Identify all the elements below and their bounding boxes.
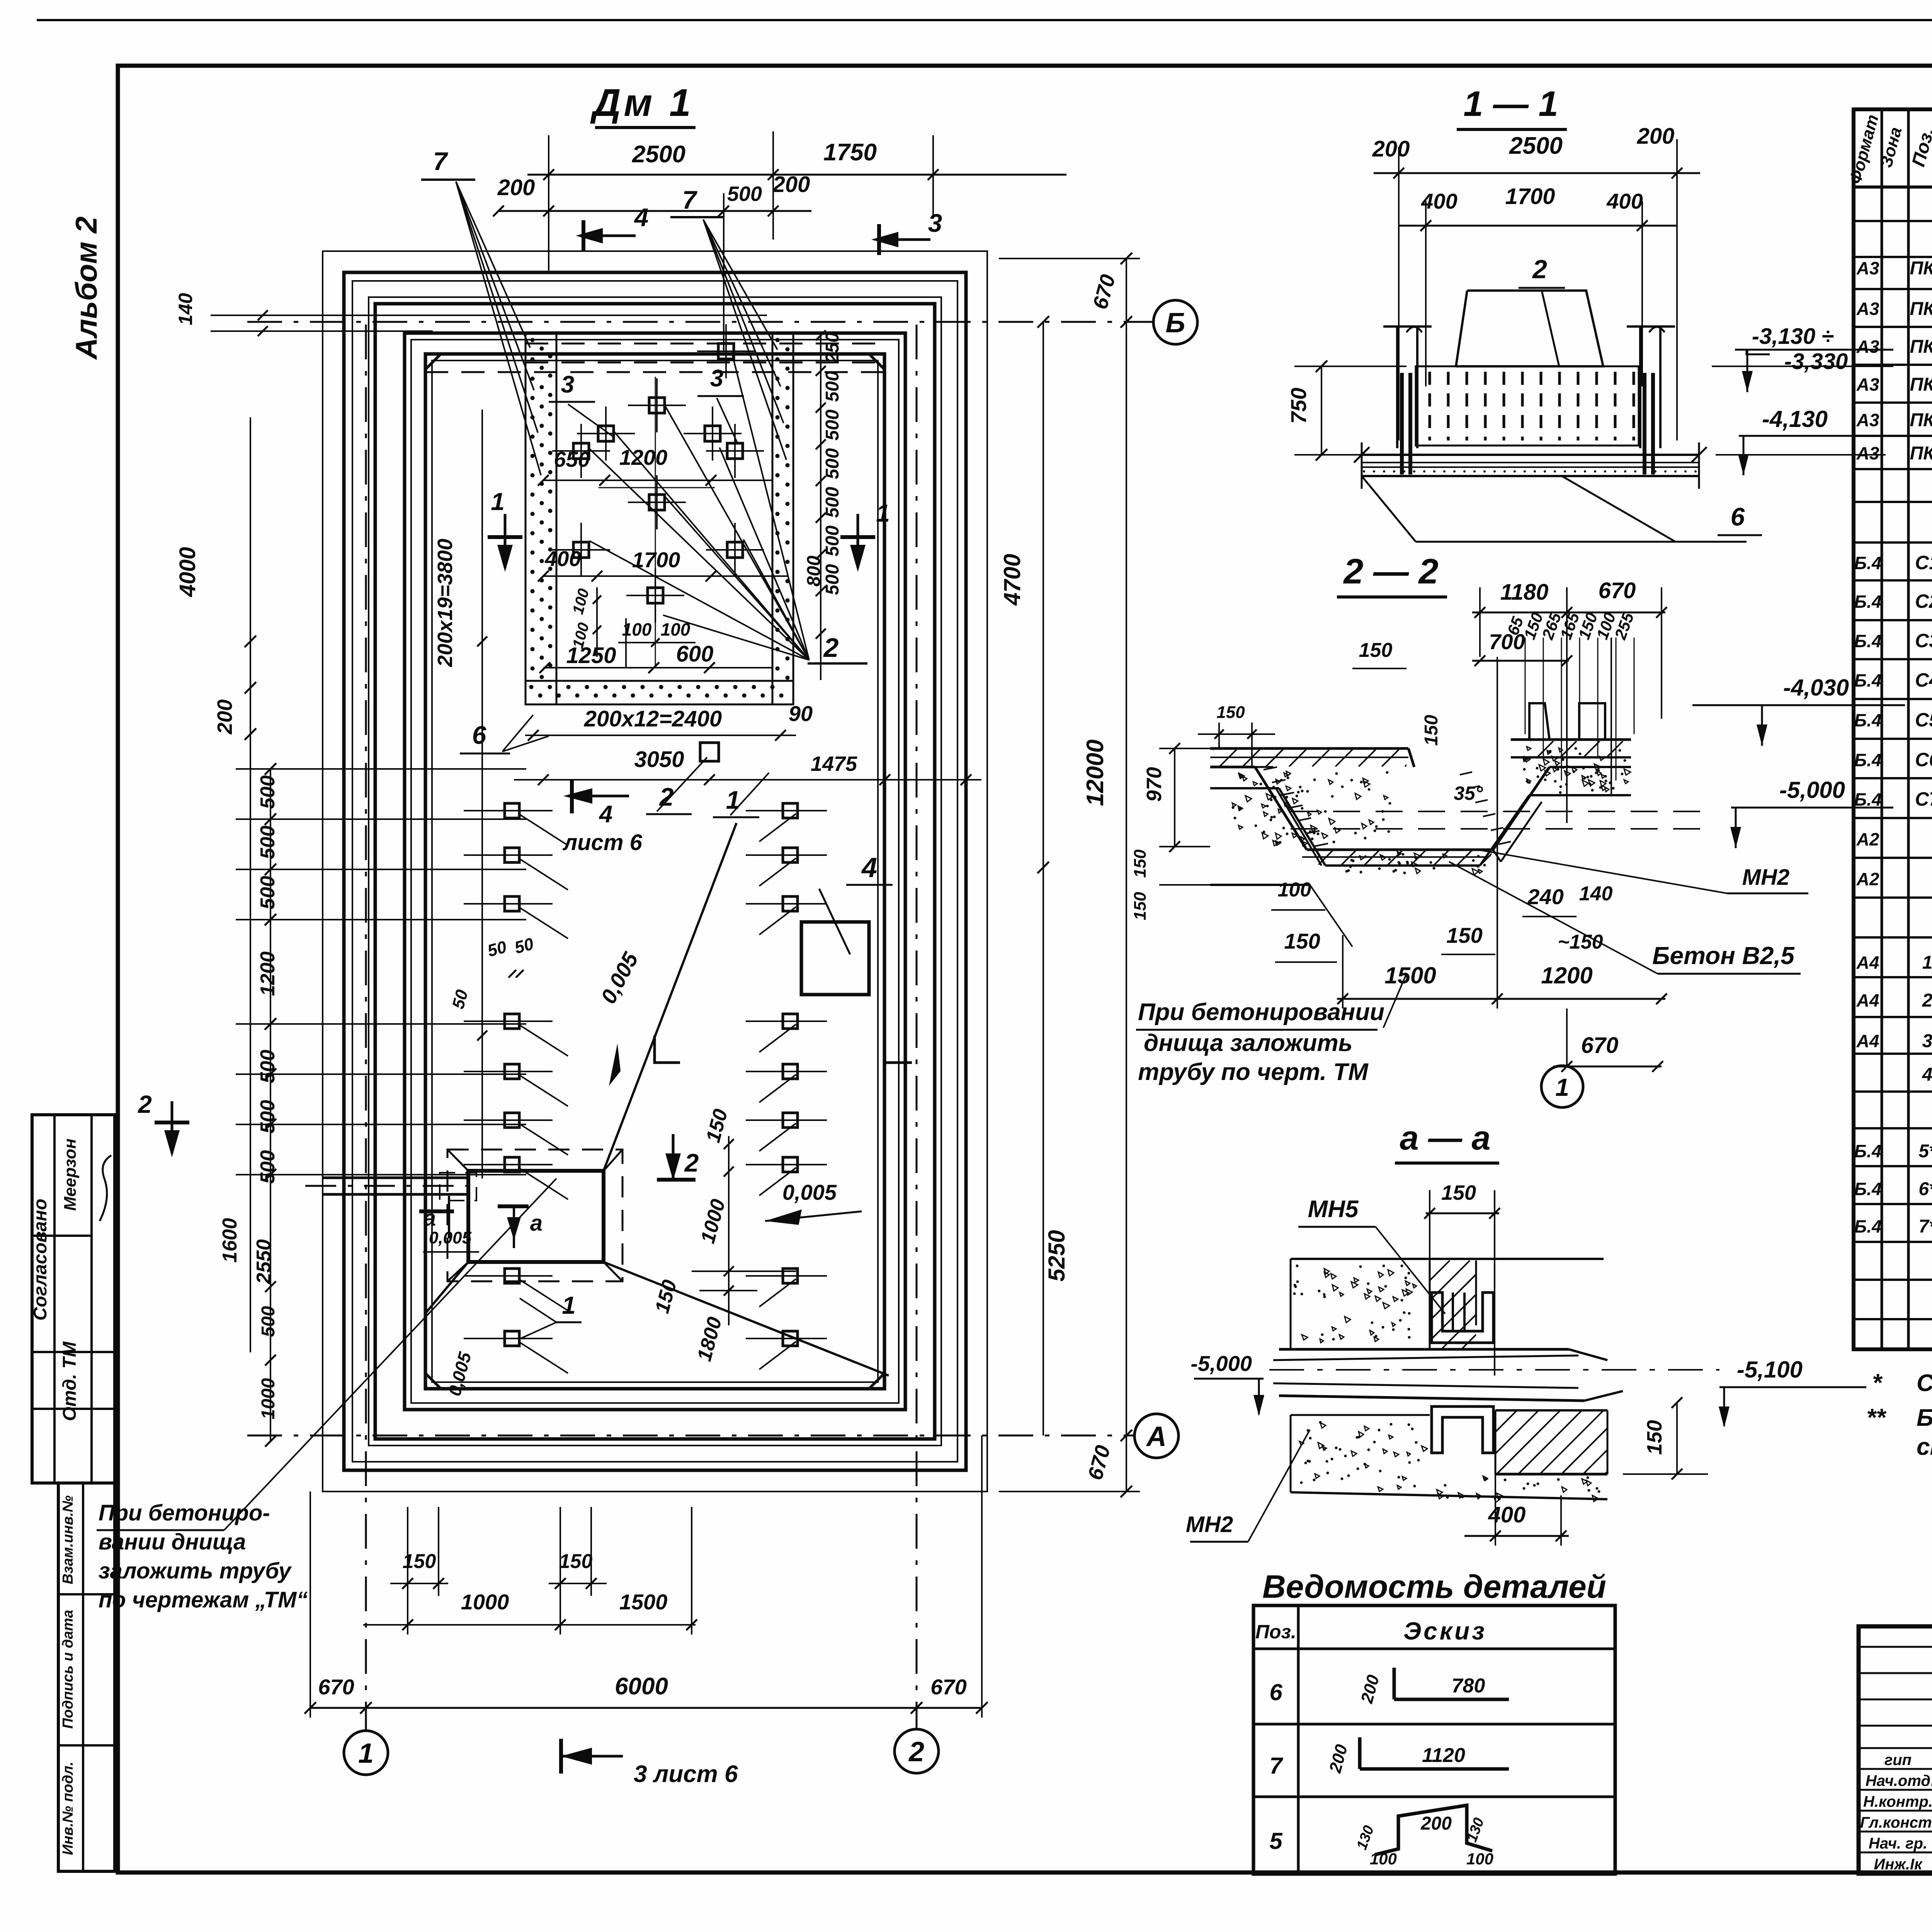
svg-text:С5: С5 [1915,709,1932,731]
chamfer corners inner formwork rect [425,354,441,369]
paper top edge line [37,19,1932,21]
svg-text:670: 670 [930,1675,966,1699]
section mark 3 лист 6 bottom [559,1739,563,1774]
svg-text:С4: С4 [1915,669,1932,691]
axis 1 vertical line [365,325,367,1731]
svg-text:6: 6 [1269,1679,1282,1705]
svg-text:200: 200 [1372,136,1410,162]
section 2-2 dashed level line [1291,811,1700,812]
svg-text:2: 2 [1922,990,1932,1011]
svg-text:2: 2 [138,1090,152,1118]
svg-text:400: 400 [1606,189,1643,213]
section 1-1 dashed mesh band [1416,366,1639,446]
section mark 3 top right [877,224,881,255]
axis А circle [1134,1414,1179,1458]
svg-text:Б.4: Б.4 [1854,631,1882,651]
svg-text:ПК3: ПК3 [1910,337,1932,357]
svg-text:200х19=3800: 200х19=3800 [434,539,457,667]
svg-text:1: 1 [876,499,890,527]
svg-text:400: 400 [1488,1502,1526,1527]
svg-text:3: 3 [710,365,723,392]
svg-text:ПК4: ПК4 [1910,374,1932,395]
svg-text:500: 500 [257,826,279,859]
plan top dim line second row 200/500/200 [498,210,811,212]
svg-text:7*: 7* [1918,1216,1932,1237]
svg-text:-3,330: -3,330 [1784,349,1848,374]
svg-text:Б.4: Б.4 [1854,710,1882,730]
svg-text:12000: 12000 [1082,740,1109,806]
svg-text:Инж.Iк: Инж.Iк [1874,1856,1923,1873]
right column of embedded squares [783,803,798,818]
section 2-2 axis circle 1 [1541,1066,1583,1107]
svg-text:750: 750 [1286,388,1311,423]
svg-text:-5,000: -5,000 [1190,1351,1252,1376]
svg-text:Ведомость деталей: Ведомость деталей [1262,1568,1606,1605]
spec table row lines [1854,220,1932,222]
svg-text:1750: 1750 [823,139,877,166]
svg-text:гип: гип [1884,1752,1912,1769]
section mark 4 лист 6 [570,781,574,813]
svg-text:1120: 1120 [1422,1744,1465,1767]
svg-text:1475: 1475 [811,752,857,776]
svg-text:35°: 35° [1454,782,1483,804]
svg-text:При бетониро-: При бетониро- [99,1500,270,1526]
section mark 1 right side [840,535,875,539]
section 2-2 slope hatch right [1498,842,1511,844]
svg-text:1000: 1000 [258,1378,279,1419]
svg-text:500: 500 [822,564,843,595]
svg-text:вании днища: вании днища [99,1529,246,1554]
svg-text:500: 500 [822,371,843,402]
svg-text:100: 100 [661,619,690,639]
a-a lower concrete stipple [1291,1414,1430,1416]
svg-text:Б.4: Б.4 [1854,1216,1882,1236]
section mark 1 left with down arrow [488,535,522,539]
axis 2 circle [895,1729,939,1773]
svg-text:150: 150 [1216,703,1245,722]
svg-text:Альбом 2: Альбом 2 [69,216,103,360]
svg-text:Б.4: Б.4 [1854,1141,1882,1161]
svg-text:670: 670 [318,1675,354,1699]
svg-text:Гл.конст.: Гл.конст. [1860,1814,1932,1831]
svg-text:Б.4: Б.4 [1854,750,1882,770]
svg-text:Инв.№ подл.: Инв.№ подл. [60,1762,76,1855]
svg-text:Подпись и дата: Подпись и дата [60,1610,76,1729]
svg-text:Б.4: Б.4 [1854,670,1882,690]
pit inner dims column right 250 500s 800 [820,336,821,680]
corner marks in plan [655,1036,680,1063]
bottom main dim line 670 6000 670 [310,1707,982,1709]
dim chain vertical lower right [728,1136,730,1325]
svg-text:~150: ~150 [1558,931,1603,953]
svg-text:Б.4: Б.4 [1854,1179,1882,1199]
svg-text:трубу по черт. ТМ: трубу по черт. ТМ [1138,1059,1369,1085]
svg-text:См. ведомость деталей: См. ведомость деталей [1917,1370,1932,1396]
svg-text:150: 150 [1359,639,1393,662]
svg-text:400: 400 [544,546,581,571]
svg-text:500: 500 [257,876,279,910]
svg-text:Б.4: Б.4 [1854,553,1882,573]
svg-text:Бетон В2,5: Бетон В2,5 [1652,942,1795,969]
svg-text:А3: А3 [1856,299,1879,319]
svg-text:650: 650 [554,447,590,471]
svg-text:Меерзон: Меерзон [61,1138,80,1211]
svg-text:А3: А3 [1856,258,1879,278]
Ведомость деталей table [1253,1605,1615,1874]
svg-text:250: 250 [822,332,843,364]
svg-text:днища заложить: днища заложить [1144,1030,1352,1056]
svg-text:150: 150 [1441,1181,1476,1204]
section mark 2 left edge [155,1121,189,1124]
svg-text:500: 500 [822,448,843,479]
section 2-2 trough profile outer [1210,748,1408,847]
svg-text:4000: 4000 [175,547,200,597]
svg-text:970: 970 [1143,767,1166,802]
pit hidden dashed lines top [525,343,885,345]
svg-text:Нач. гр.: Нач. гр. [1869,1835,1927,1852]
svg-text:6: 6 [472,721,487,749]
svg-text:А3: А3 [1856,337,1879,357]
spec table column lines [1881,109,1883,1349]
svg-text:С3: С3 [1915,630,1932,651]
svg-text:5: 5 [1269,1828,1283,1854]
svg-text:ПК6: ПК6 [1910,443,1932,464]
svg-text:0,005: 0,005 [429,1228,472,1247]
svg-text:90: 90 [789,701,813,726]
section 1-1 lower parallelogram lines [1362,476,1416,542]
svg-text:Б.4: Б.4 [1854,592,1882,612]
section 2-2 slope hatch left [1264,767,1277,770]
section 1-1 dark rebar bundles [1400,373,1404,474]
svg-text:100: 100 [1278,879,1311,901]
svg-text:Взам.инв.№: Взам.инв.№ [60,1495,76,1584]
svg-text:3: 3 [561,371,574,398]
svg-text:А3: А3 [1856,374,1879,395]
svg-text:6000: 6000 [615,1673,668,1700]
svg-text:-5,000: -5,000 [1779,777,1845,803]
svg-text:1700: 1700 [1505,184,1555,209]
svg-text:200: 200 [772,172,810,197]
opening square pos 4 in plan [801,922,869,995]
svg-text:1200: 1200 [619,445,668,469]
svg-text:ПК5: ПК5 [1910,410,1932,430]
section mark a lower-left with arrows [498,1204,529,1208]
plan slope diagonal lines [604,823,736,1171]
svg-text:150: 150 [1446,923,1482,947]
svg-text:1700: 1700 [632,548,680,572]
svg-text:1: 1 [726,786,740,814]
bottom pit rectangle in plan [468,1171,604,1262]
svg-text:150: 150 [1131,849,1150,878]
svg-text:А4: А4 [1856,952,1879,973]
svg-text:240: 240 [1527,884,1563,909]
svg-text:200: 200 [497,175,535,200]
spec table header [1854,185,1932,189]
left dim vertical line outer [250,526,251,1352]
svg-text:1600: 1600 [219,1218,241,1263]
svg-text:4: 4 [599,801,612,828]
svg-text:-3,130 ÷: -3,130 ÷ [1752,324,1834,349]
section mark 2 lower with down arrow [657,1178,696,1182]
svg-text:1: 1 [562,1291,576,1319]
section 2-2 top dims 1180 670 [1472,612,1665,614]
plan nested formwork rectangles [323,251,987,1492]
svg-text:по чертежам „ТМ“: по чертежам „ТМ“ [99,1587,308,1612]
svg-text:А3: А3 [1856,410,1879,430]
svg-text:1 — 1: 1 — 1 [1463,84,1558,124]
a-a upper concrete stipple block [1291,1258,1604,1260]
svg-text:А: А [1146,1421,1167,1452]
svg-text:А4: А4 [1856,1031,1879,1051]
svg-text:Дм 1: Дм 1 [590,81,694,124]
section 2-2 vertical reference lines mid [1497,657,1498,850]
svg-text:Согласовано: Согласовано [30,1199,51,1321]
section mark 4 top [582,220,585,251]
svg-text:МН5: МН5 [1308,1196,1359,1223]
left column of embedded squares [505,803,519,818]
svg-text:3: 3 [1922,1031,1932,1051]
svg-text:600: 600 [676,641,714,667]
upper left stamp table [32,1115,115,1483]
svg-text:МН2: МН2 [1186,1512,1233,1537]
svg-text:1250: 1250 [566,643,616,668]
right vertical dim 5250 [1043,867,1044,1435]
embedded plate squares in pit [718,344,734,359]
svg-text:150: 150 [1643,1420,1666,1455]
section 2-2 stipple fill [1280,779,1283,782]
svg-text:6: 6 [1731,502,1745,531]
svg-text:3 лист 6: 3 лист 6 [634,1761,738,1787]
svg-text:800: 800 [804,556,824,587]
right vertical dim 4700 [1043,322,1044,867]
section 1-1 base slab [1362,454,1699,456]
svg-text:200: 200 [1637,124,1675,149]
svg-text:3: 3 [928,209,942,237]
svg-text:лист 6: лист 6 [562,830,642,855]
svg-text:Отд. ТМ: Отд. ТМ [60,1341,80,1421]
svg-text:500: 500 [822,410,843,440]
a-a lower channel anchor [1432,1406,1493,1453]
svg-text:150: 150 [1284,929,1320,953]
axis 2 vertical line [916,325,918,1729]
svg-text:а — а: а — а [1400,1119,1491,1157]
svg-text:1180: 1180 [1500,580,1549,605]
svg-text:2500: 2500 [1509,133,1563,159]
section 2-2 inner liner parallel lines [1276,788,1321,866]
pipe stub dashed lines at left wall [323,1177,468,1179]
section 2-2 extra stipple near footing [1612,787,1615,790]
svg-text:7: 7 [682,185,698,214]
svg-text:1500: 1500 [619,1590,668,1614]
section 1-1 dim row 200 2500 200 [1374,172,1700,174]
svg-text:500: 500 [822,526,843,556]
svg-text:а: а [530,1211,543,1236]
svg-text:150: 150 [559,1550,593,1573]
svg-text:Эскиз: Эскиз [1403,1617,1487,1645]
svg-text:1500: 1500 [1384,963,1436,988]
left inner dim line [481,410,483,1179]
svg-text:4: 4 [1922,1065,1932,1085]
svg-text:С6: С6 [1915,749,1932,770]
section 1-1 wall verticals [1396,327,1398,448]
svg-text:0,005: 0,005 [782,1180,837,1204]
svg-text:780: 780 [1452,1675,1485,1697]
title block outer [1859,1626,1932,1874]
svg-text:500: 500 [258,1306,279,1337]
svg-text:200х12=2400: 200х12=2400 [584,706,722,731]
svg-text:-4,030: -4,030 [1783,675,1849,701]
svg-text:2: 2 [908,1736,924,1767]
svg-text:200: 200 [1420,1813,1452,1834]
svg-text:150: 150 [1131,892,1150,920]
a-a pipe through wall [1279,1348,1569,1351]
svg-text:1000: 1000 [461,1590,509,1614]
pit center thin vertical [655,377,656,667]
spec table bottom line [1854,1347,1932,1351]
right dim 670 top [999,258,1140,259]
small square on 3050 line [700,743,719,761]
svg-text:2: 2 [823,633,839,663]
svg-text:С1: С1 [1915,552,1932,573]
section 1-1 hopper trapezoid [1456,291,1603,366]
a-a upper channel anchor МН5 [1432,1293,1493,1343]
svg-text:А4: А4 [1856,990,1879,1010]
pit stippled wall bands in plan [526,333,556,704]
svg-text:7: 7 [1269,1753,1283,1779]
svg-text:Нач.отд: Нач.отд [1866,1772,1930,1789]
axis 1 circle [344,1731,388,1775]
svg-text:-4,130: -4,130 [1762,406,1828,432]
svg-text:1: 1 [491,488,505,515]
svg-text:6*: 6* [1918,1179,1932,1199]
axis А line [247,1435,1134,1437]
section 2-2 left vert extensions [1218,723,1220,748]
svg-text:1: 1 [1922,952,1932,973]
svg-text:670: 670 [1581,1033,1619,1058]
svg-text:5*: 5* [1918,1141,1932,1162]
svg-text:2 — 2: 2 — 2 [1343,552,1438,591]
svg-text:5250: 5250 [1044,1230,1070,1281]
signature squiggle upper stamp [100,1155,111,1221]
svg-text:Б.4: Б.4 [1854,789,1882,810]
svg-text:**: ** [1866,1403,1887,1431]
svg-text:заложить трубу: заложить трубу [99,1558,292,1583]
svg-text:*: * [1872,1369,1883,1396]
svg-text:Б: Б [1166,308,1185,338]
svg-text:100: 100 [1370,1850,1397,1868]
svg-text:140: 140 [1579,883,1613,905]
svg-text:140: 140 [175,293,196,325]
svg-text:При бетонировании: При бетонировании [1138,999,1384,1026]
svg-text:А3: А3 [1856,443,1879,463]
plan top dim line 2500-1750 [527,174,1066,176]
svg-text:670: 670 [1599,578,1636,603]
svg-text:150: 150 [1421,715,1442,746]
svg-text:100: 100 [1466,1850,1493,1868]
svg-text:-5,100: -5,100 [1737,1357,1803,1383]
svg-text:А2: А2 [1856,869,1879,889]
svg-text:500: 500 [257,776,279,809]
right vertical dim 12000 [1126,259,1127,1492]
svg-text:4: 4 [861,852,877,883]
svg-text:2550: 2550 [253,1239,275,1284]
svg-text:2500: 2500 [632,141,685,168]
svg-text:стойком портландцементе.: стойком портландцементе. [1917,1434,1932,1460]
svg-text:3050: 3050 [634,747,684,772]
svg-text:200: 200 [213,699,236,735]
svg-text:С7: С7 [1915,788,1932,810]
svg-text:Н.контр.: Н.контр. [1863,1793,1932,1810]
svg-text:1200: 1200 [1541,963,1592,988]
svg-text:7: 7 [433,147,449,175]
section 2-2 dim 700 and small fan dims [1472,660,1569,662]
svg-text:а: а [423,1206,436,1231]
axis Б circle [1153,300,1197,344]
axis Б line [247,321,1153,323]
svg-text:1: 1 [358,1738,374,1769]
svg-text:А2: А2 [1856,829,1879,849]
svg-text:Бетон марки W8 по водонепр: Бетон марки W8 по водонепроницаемости на… [1917,1405,1932,1431]
svg-text:4: 4 [634,203,649,231]
svg-text:ПК2: ПК2 [1910,299,1932,319]
svg-text:Поз.: Поз. [1255,1621,1296,1643]
section 1-1 dim row 400 1700 400 [1399,225,1677,227]
section 2-2 upper right footing with upstands [1529,703,1549,740]
svg-text:4700: 4700 [999,554,1025,605]
svg-text:ПК1: ПК1 [1910,258,1932,279]
svg-text:2: 2 [684,1148,699,1177]
spec table outer [1854,109,1932,1349]
svg-text:1200: 1200 [257,951,279,996]
svg-text:С2: С2 [1915,590,1932,612]
lower left stamp table [58,1483,115,1871]
svg-text:2: 2 [1532,255,1547,284]
svg-text:1: 1 [1555,1073,1569,1101]
svg-text:МН2: МН2 [1742,865,1789,890]
svg-text:500: 500 [727,182,762,206]
